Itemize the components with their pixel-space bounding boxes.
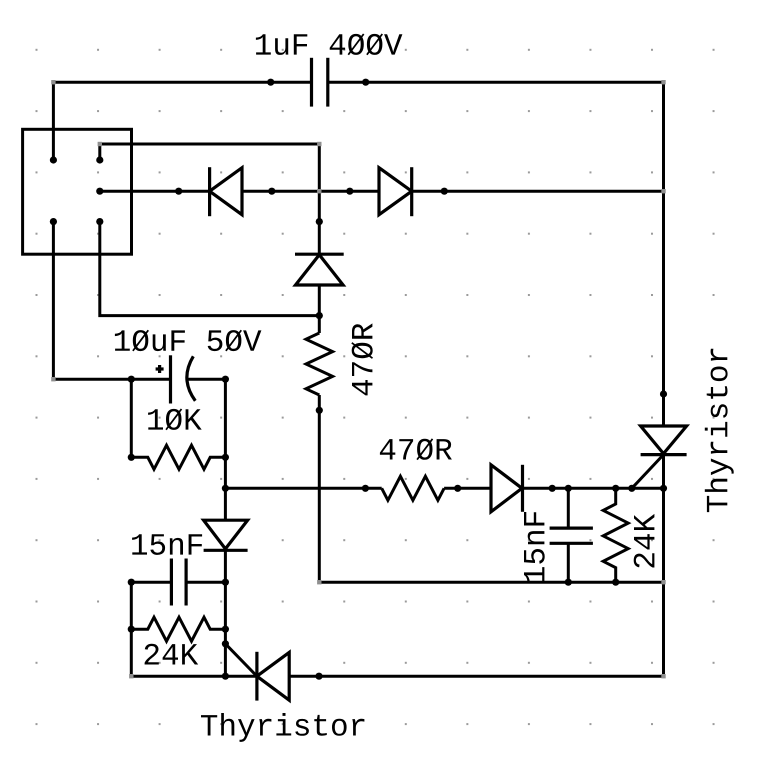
label C3 value 15nF: [132, 534, 202, 555]
wire from R1 down to lower row and right to rail: [319, 395, 663, 582]
node dot left of C2: [128, 376, 135, 383]
node dot right of C2: [222, 376, 229, 383]
wire C4 bottom lead: [567, 543, 570, 582]
node dot left of C3: [128, 579, 135, 586]
wire middle row from D2 to right rail: [412, 190, 664, 193]
diode D4 cathode bar: [204, 549, 248, 552]
wire branch down to diode D4: [224, 488, 227, 520]
resistor R2 10K zigzag: [131, 445, 225, 469]
pin dot thyristor T1 anode: [660, 390, 667, 397]
bridge block rectangle: [23, 129, 132, 254]
diode D4 triangle pointing down: [204, 520, 248, 549]
grey handle corner left of 10uF row: [51, 377, 55, 381]
diode D2 cathode bar: [410, 167, 413, 216]
grey handle middle row crossing: [317, 189, 321, 193]
diode D5 triangle pointing right: [491, 465, 522, 512]
grey handle pin2 corner: [98, 142, 102, 146]
label R2 value 10K: [148, 409, 202, 431]
wire gate row from branch to R3: [225, 487, 381, 490]
capacitor C2 curved plate: [187, 356, 195, 401]
pin dot below R1: [316, 407, 323, 414]
capacitor C4 15nF plates: [550, 526, 593, 529]
node dot left of R5: [128, 626, 135, 633]
pin dot block pin 2: [96, 156, 103, 163]
capacitor C1 1uF 400V plates: [310, 58, 313, 107]
node dot left of R2: [128, 454, 135, 461]
node dot gate of thyristor T1: [628, 485, 635, 492]
thyristor T2 cathode bar: [255, 652, 258, 701]
diode D1 triangle pointing left: [210, 168, 242, 215]
diode D1 cathode bar: [208, 167, 211, 216]
node dot right of R2: [222, 454, 229, 461]
thyristor T1 cathode bar: [641, 453, 687, 456]
node dot right of D1: [268, 188, 275, 195]
label R1 value 470R vertical: [351, 323, 373, 395]
node dot middle row near block: [175, 188, 182, 195]
diode D3 triangle pointing up: [296, 255, 344, 285]
pin dot block pin 4: [50, 218, 57, 225]
node dot branch at bottom wire: [222, 673, 229, 680]
node dot gate row left: [222, 485, 229, 492]
wire 10uF row left lead: [131, 378, 170, 381]
resistor R3 470R horizontal zigzag: [382, 476, 444, 500]
wire left rail from top corner down to block pin 1: [52, 82, 55, 160]
node dot top of C4 branch: [565, 485, 572, 492]
node dot junction pin5 wire and branch: [316, 312, 323, 319]
thyristor T2 gate diagonal: [225, 644, 257, 676]
node dot top of R4: [612, 485, 619, 492]
wire from D4 bar down to 15nF row: [224, 550, 227, 582]
diode D2 triangle pointing right: [379, 168, 412, 215]
wire from R3 to diode D5: [444, 487, 491, 490]
node dot gate junction of T2: [222, 640, 229, 647]
node dot rail at gate row: [660, 485, 667, 492]
wire top rail left segment: [53, 81, 310, 84]
wire right rail lower segment: [662, 455, 665, 677]
diode D5 cathode bar: [521, 465, 524, 512]
node dot right of T2: [315, 673, 322, 680]
pin dot block pin 5: [96, 218, 103, 225]
capacitor C3 15nF plates: [170, 559, 173, 606]
label C2 value 10uF 50V: [115, 330, 262, 352]
wire branch from 15nF row down to bottom wire: [224, 582, 227, 676]
label C4 value 15nF vertical: [524, 512, 545, 582]
grey handle bottom-right corner: [661, 674, 665, 678]
node dot right of D2: [441, 188, 448, 195]
label R4 value 24K vertical: [634, 514, 655, 568]
label R3 value 470R: [380, 438, 452, 460]
node dot right of C3: [222, 579, 229, 586]
grey handle corner branch at lower row: [317, 580, 321, 584]
grey handle branch top corner: [317, 142, 321, 146]
pin dot block pin 3: [96, 188, 103, 195]
wire right branch down to gate row: [224, 379, 227, 488]
wire from block pin 5 down and right to vertical branch: [100, 222, 319, 316]
thyristor T2 triangle pointing left: [257, 652, 289, 700]
grey handle bottom-left corner: [129, 674, 133, 678]
grey handle top-left corner: [51, 80, 55, 84]
wire from block pin 2 up right and down to diode D3: [100, 144, 319, 254]
wire left branch down to 10K: [130, 379, 133, 457]
grey handle rail middle junction: [661, 189, 665, 193]
grey handle rail at lower row: [661, 580, 665, 584]
wire middle row from block pin 3 to diode D1: [100, 190, 210, 193]
node dot left of R3: [362, 485, 369, 492]
wire C4 top lead: [567, 488, 570, 528]
label T2 Thyristor: [201, 713, 364, 742]
wire 10uF row right lead: [189, 378, 226, 381]
grey handle top-right corner: [661, 80, 665, 84]
node dot right of R3: [454, 485, 461, 492]
node dot left of C1: [267, 79, 274, 86]
node dot left of D2: [346, 188, 353, 195]
diode D3 cathode bar: [295, 253, 344, 256]
node dot R4 bottom: [612, 579, 619, 586]
node dot right of R5: [222, 626, 229, 633]
node dot right of C1: [362, 79, 369, 86]
capacitor C2 plus sign: [156, 367, 164, 370]
pin dot block pin 1: [50, 156, 57, 163]
wire from block pin 4 down and right to 10uF row: [53, 222, 131, 380]
wire right rail upper segment: [662, 82, 665, 426]
wire from D3 anode down to R1: [318, 285, 321, 333]
thyristor T1 gate diagonal: [632, 455, 664, 489]
thyristor T1 triangle pointing down: [641, 426, 687, 454]
resistor R5 24K zigzag: [131, 617, 225, 641]
label T1 Thyristor vertical: [705, 349, 734, 512]
wire 15nF row right lead: [186, 581, 225, 584]
node dot right of D5: [549, 485, 556, 492]
wire middle row between D1 and D2: [242, 190, 379, 193]
label R5 value 24K: [145, 644, 199, 665]
wire left branch down to bottom corner and right: [131, 582, 257, 676]
node dot C4 bottom: [565, 579, 572, 586]
wire 15nF row left lead: [131, 581, 171, 584]
resistor R1 470R vertical zigzag: [306, 333, 333, 395]
wire from D5 to right rail: [523, 487, 664, 490]
resistor R4 24K vertical zigzag: [603, 488, 628, 582]
wire top rail right segment: [329, 81, 664, 84]
wire bottom row from T2 anode to right rail: [289, 675, 663, 678]
capacitor C2 10uF electrolytic straight plate: [169, 355, 172, 403]
pin dot on vertical branch above D3: [316, 218, 323, 225]
label C1 value 1uF 400V: [256, 34, 403, 56]
